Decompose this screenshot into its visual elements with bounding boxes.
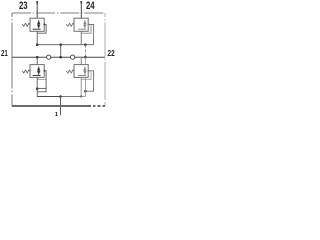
main gallery 21-22 wire — [12, 56, 105, 58]
node J10 — [80, 95, 82, 97]
valve V4 outlet wire — [80, 77, 82, 96]
valve V3 box (bottom-left) — [30, 65, 44, 78]
valve V4 inlet wire — [80, 57, 82, 64]
valve V3 pilot node — [43, 70, 45, 72]
tank header wire — [37, 96, 61, 98]
valve V3 seat bar — [33, 75, 41, 77]
node J9 — [59, 95, 62, 98]
drain header wire — [37, 44, 93, 46]
valve V2 box (top-right) — [74, 18, 88, 31]
valve V4 pilot node — [87, 70, 89, 72]
svg-text:21: 21 — [1, 48, 8, 58]
valve V3 spring — [22, 70, 30, 73]
valve V3 outlet wire — [36, 77, 38, 96]
drain drop wire right — [85, 45, 87, 58]
valve V2 pilot loop — [81, 24, 91, 33]
valve V1 outlet wire — [36, 31, 38, 44]
node J7 — [36, 87, 39, 90]
valve V4 pilot loop — [81, 71, 91, 80]
enclosure right border — [104, 13, 106, 106]
valve V2 pilot stub — [88, 24, 93, 44]
node J1 — [36, 43, 39, 46]
valve V3 inlet wire — [36, 57, 38, 64]
node J2 — [59, 43, 62, 46]
valve V2 seat bar — [78, 28, 86, 30]
valve V3 pilot loop — [37, 78, 46, 80]
valve V4 arrow — [83, 66, 86, 75]
drain drop wire center — [60, 45, 62, 58]
valve V3 pilot stub — [37, 71, 46, 92]
enclosure left border — [11, 13, 13, 106]
valve V1 pilot node — [43, 23, 45, 25]
valve V4 side wire upper — [85, 57, 87, 64]
enclosure bottom border — [12, 105, 105, 107]
valve V4 pilot stub — [86, 71, 94, 91]
svg-text:23: 23 — [19, 0, 28, 12]
valve V4 side wire lower — [85, 77, 87, 96]
node J6 — [84, 56, 87, 59]
valve V2 arrow — [83, 20, 86, 29]
valve V1 pilot stub — [37, 24, 46, 33]
node J8 — [84, 90, 87, 93]
valve V1 seat bar — [33, 28, 41, 30]
node J5 — [59, 56, 62, 59]
valve V1 arrow — [37, 20, 40, 29]
svg-text:24: 24 — [86, 0, 95, 12]
valve V4 seat bar — [78, 75, 86, 77]
port 1 line — [60, 97, 62, 116]
node J4 — [36, 56, 39, 59]
valve V4 box (bottom-right) — [74, 65, 88, 78]
enclosure top border — [12, 12, 105, 14]
valve V1 box (top-left) — [30, 18, 44, 31]
valve V3 drain tap wire — [37, 87, 46, 89]
node J3 — [84, 43, 87, 46]
svg-text:1: 1 — [55, 112, 59, 118]
port 24 line — [80, 1, 82, 18]
valve V1 spring — [22, 23, 30, 26]
port 23 line — [36, 1, 38, 18]
valve V2 pilot node — [87, 23, 89, 25]
valve V2 spring — [66, 23, 74, 26]
svg-text:22: 22 — [108, 48, 115, 58]
orifice O1 — [47, 55, 51, 59]
valve V3 arrow — [37, 66, 40, 75]
orifice O2 — [71, 55, 75, 59]
valve V2 outlet wire — [80, 31, 82, 44]
valve V4 spring — [66, 70, 74, 73]
